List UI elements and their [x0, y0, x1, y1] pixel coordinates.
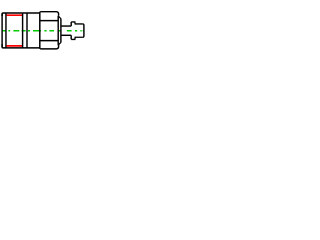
- ring top line: [40, 12, 58, 16]
- collar bottom chamfer: [58, 42, 61, 45]
- tip end face: [83, 24, 84, 37]
- barb ridge top face: [70, 22, 72, 26]
- ring bottom line: [40, 45, 58, 49]
- nut right edge / ring left face: [39, 12, 41, 49]
- body bottom outline: [2, 44, 39, 48]
- cap left edge: [1, 14, 3, 47]
- neck top line: [39, 20, 58, 22]
- nut left edge: [22, 13, 24, 48]
- cap right edge: [5, 13, 7, 48]
- collar top chamfer: [58, 16, 61, 19]
- red sleeve top line: [7, 14, 23, 16]
- collar right edge: [60, 19, 62, 43]
- red sleeve bottom line: [7, 45, 23, 47]
- barb taper bottom: [71, 37, 83, 39]
- barb ridge bottom face: [70, 35, 72, 39]
- nut inner edge: [26, 13, 28, 48]
- centerline (green dash-dot): [3, 30, 84, 32]
- barb groove top line: [61, 25, 71, 27]
- body top outline: [2, 13, 39, 16]
- barb groove bottom line: [61, 34, 71, 36]
- collar left edge: [57, 16, 59, 46]
- barb taper top: [71, 22, 83, 24]
- neck bottom line: [39, 40, 58, 42]
- background: [0, 0, 90, 60]
